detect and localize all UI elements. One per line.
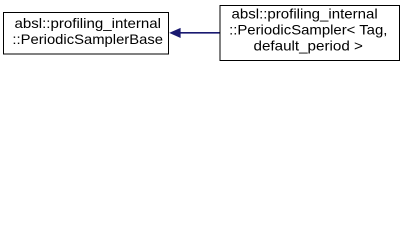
class box: absl::profiling_internal::PeriodicSamplerBase — [4, 13, 169, 55]
svg-text:default_period >: default_period > — [254, 38, 363, 53]
class box: absl::profiling_internal::PeriodicSampler< Tag, default_period > — [220, 6, 400, 61]
svg-text:::PeriodicSampler< Tag,: ::PeriodicSampler< Tag, — [229, 22, 387, 37]
inheritance arrow (derived to base, midnightblue) — [170, 28, 220, 37]
svg-text:absl::profiling_internal: absl::profiling_internal — [15, 16, 162, 31]
svg-text:::PeriodicSamplerBase: ::PeriodicSamplerBase — [12, 32, 163, 47]
svg-text:absl::profiling_internal: absl::profiling_internal — [232, 6, 378, 21]
